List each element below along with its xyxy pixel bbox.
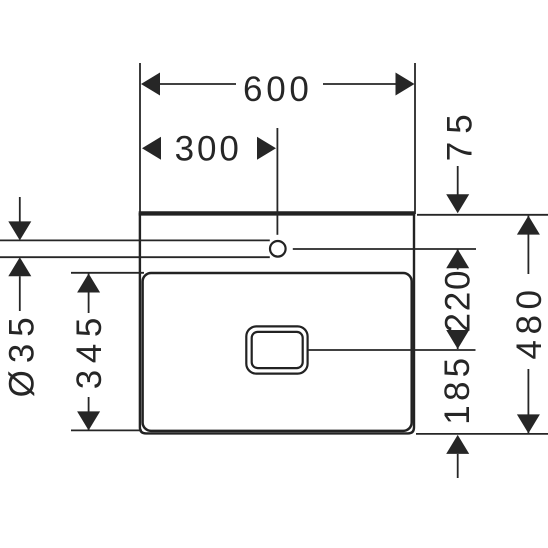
dim 185 shaft below	[457, 454, 459, 478]
inner-bottom-left extension	[71, 429, 142, 431]
dim 480 arrow up	[517, 216, 540, 235]
dim 300 arrow right	[257, 137, 276, 160]
bottom-right extension	[416, 433, 548, 435]
dim 480 arrow down	[517, 414, 540, 433]
dim 345 arrow up	[77, 274, 100, 293]
dim 345 arrow down	[77, 411, 100, 430]
extension/center line (x=277)	[276, 128, 278, 235]
dim d35 shaft lower	[19, 276, 21, 311]
dim d35 arrow up	[8, 257, 31, 276]
svg-text:220: 220	[438, 269, 477, 333]
dim d35 arrow down	[8, 221, 31, 240]
basin outer outline	[140, 214, 414, 433]
dim 185 arrow up (below line)	[446, 435, 469, 454]
dim 220 arrow up	[446, 249, 469, 268]
dim 75 shaft	[457, 166, 459, 210]
dim d35 shaft upper	[19, 197, 21, 236]
drain outer	[246, 326, 307, 373]
dim 600 line	[160, 83, 396, 85]
dim 480 shaft	[527, 216, 529, 434]
svg-text:300: 300	[175, 129, 242, 168]
faucet tangent line lower	[0, 256, 270, 258]
dim 75 arrow down	[446, 194, 469, 213]
drain inner	[252, 332, 303, 368]
svg-text:Ø35: Ø35	[3, 310, 42, 397]
extension line left (x=140)	[139, 63, 141, 214]
basin top edge thick	[139, 211, 416, 215]
faucet hole	[270, 241, 286, 257]
drain center leader	[308, 349, 476, 351]
dim 220 arrow down	[446, 330, 469, 349]
top-right extension	[417, 214, 548, 216]
dim 300 arrow left	[142, 137, 161, 160]
svg-text:345: 345	[70, 311, 109, 389]
inner-top-left extension	[71, 272, 144, 274]
basin inner bowl	[143, 273, 412, 431]
svg-text:185: 185	[438, 354, 477, 425]
dim 220 shaft	[457, 249, 459, 349]
faucet center leader	[293, 248, 476, 250]
dim 600 arrow right	[396, 73, 415, 96]
svg-text:480: 480	[510, 285, 548, 360]
extension line right (x=415)	[414, 63, 416, 214]
svg-text:600: 600	[243, 70, 313, 109]
faucet tangent line upper	[0, 239, 270, 241]
svg-text:75: 75	[441, 106, 480, 161]
dim 345 shaft	[88, 274, 90, 431]
dim 600 arrow left	[141, 73, 160, 96]
